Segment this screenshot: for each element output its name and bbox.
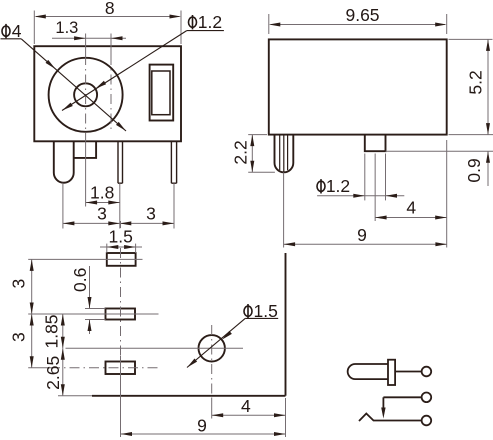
svg-text:3: 3 <box>9 279 29 289</box>
svg-text:0.9: 0.9 <box>464 158 484 182</box>
svg-text:1.8: 1.8 <box>90 183 114 203</box>
svg-text:4: 4 <box>241 396 251 416</box>
svg-text:1.2: 1.2 <box>326 176 350 196</box>
svg-text:1.85: 1.85 <box>42 314 62 348</box>
svg-text:8: 8 <box>105 0 115 18</box>
svg-text:9: 9 <box>197 416 207 436</box>
svg-text:1.5: 1.5 <box>109 227 133 247</box>
svg-text:3: 3 <box>97 204 107 224</box>
svg-text:2.2: 2.2 <box>231 140 251 164</box>
svg-text:0.6: 0.6 <box>70 268 90 292</box>
svg-text:9: 9 <box>357 225 367 245</box>
svg-text:3: 3 <box>146 204 156 224</box>
svg-text:2.65: 2.65 <box>43 356 63 390</box>
svg-text:1.3: 1.3 <box>55 19 78 37</box>
svg-text:4: 4 <box>406 198 416 218</box>
svg-text:9.65: 9.65 <box>345 5 379 25</box>
svg-text:1.2: 1.2 <box>198 12 222 32</box>
svg-text:5.2: 5.2 <box>466 70 486 94</box>
svg-text:3: 3 <box>9 332 29 342</box>
svg-text:4: 4 <box>12 21 22 41</box>
